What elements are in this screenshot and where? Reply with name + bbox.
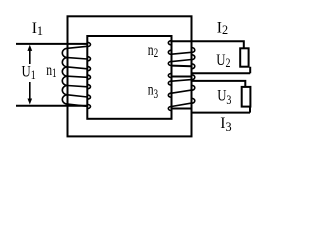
arrowhead down [28,99,33,105]
svg-text:n3: n3 [148,82,159,101]
winding n3 crossing wires [172,80,192,107]
winding n2 back bumps (inner rail) [168,41,171,66]
voltage arrow U1 lower (points down) [29,82,31,99]
winding n1 back bumps [87,42,90,108]
winding n3 back bumps (inner rail) [168,73,171,110]
svg-text:n1: n1 [46,63,56,81]
wire: R2 return to winding n2 [192,67,251,74]
transformer core inner rectangle (window) [87,36,171,119]
voltage arrow U1 upper (points up) [29,50,31,64]
resistor R2 [240,48,248,66]
arrowhead up [27,45,32,51]
svg-text:U2: U2 [216,52,231,71]
svg-text:U1: U1 [22,63,36,82]
winding n2 front loops (outer rail) [192,48,195,69]
wire: primary top lead [16,43,87,45]
winding n2 crossing wires [172,52,192,61]
wire: n3 bottom exit and return to R3 [172,107,251,113]
svg-text:I3: I3 [220,115,231,134]
wire: primary bottom lead [16,105,87,107]
wire: secondary n3 top lead to R3 [172,77,246,87]
winding n1 crossing wires [68,46,88,106]
resistor R3 [242,87,251,107]
wire: secondary n2 top lead to R2 [172,41,244,48]
transformer core outer rectangle [68,16,192,136]
wire: n2 bottom exit [172,65,192,68]
svg-text:I2: I2 [217,19,228,37]
svg-text:n2: n2 [148,42,158,60]
winding n1 front arcs [62,48,67,104]
svg-text:I1: I1 [32,20,43,38]
winding n3 front loops (outer rail) [192,75,195,104]
svg-text:U3: U3 [217,87,232,107]
